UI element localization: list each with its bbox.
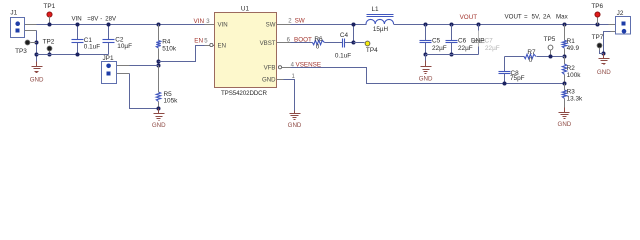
svg-text:C6: C6 — [458, 37, 467, 44]
svg-text:VIN: VIN — [194, 18, 205, 25]
svg-text:L1: L1 — [371, 6, 379, 13]
svg-text:0.1uF: 0.1uF — [84, 44, 100, 51]
svg-text:VOUT: VOUT — [460, 14, 478, 21]
svg-text:TPS54202DDCR: TPS54202DDCR — [221, 90, 268, 97]
svg-text:TP6: TP6 — [591, 3, 603, 10]
svg-text:100k: 100k — [567, 72, 582, 79]
svg-text:EN: EN — [194, 37, 203, 44]
svg-text:13.3k: 13.3k — [567, 96, 583, 103]
svg-text:R3: R3 — [567, 89, 576, 96]
svg-text:105k: 105k — [164, 98, 179, 105]
svg-text:C7: C7 — [485, 37, 494, 44]
svg-text:TP4: TP4 — [366, 47, 378, 54]
svg-text:VIN: VIN — [218, 21, 228, 28]
svg-text:TP1: TP1 — [43, 3, 55, 10]
svg-text:C5: C5 — [432, 37, 441, 44]
svg-text:TP7: TP7 — [592, 34, 604, 41]
svg-text:R4: R4 — [162, 38, 171, 45]
svg-text:0.1uF: 0.1uF — [335, 52, 351, 59]
svg-text:GND: GND — [419, 76, 433, 83]
svg-text:510k: 510k — [162, 45, 177, 52]
svg-text:SW: SW — [295, 18, 305, 25]
svg-text:J1: J1 — [10, 10, 17, 17]
svg-text:GND: GND — [558, 121, 572, 128]
svg-text:GND: GND — [262, 76, 276, 83]
svg-text:75pF: 75pF — [510, 75, 525, 82]
svg-text:TP3: TP3 — [15, 48, 27, 55]
svg-text:TP5: TP5 — [544, 36, 556, 43]
svg-text:22µF: 22µF — [458, 45, 473, 52]
svg-text:VBST: VBST — [260, 40, 276, 47]
svg-text:R1: R1 — [567, 38, 576, 45]
svg-text:VIN=8V-28V: VIN=8V-28V — [72, 15, 117, 22]
svg-text:15µH: 15µH — [373, 26, 389, 33]
svg-text:C4: C4 — [340, 32, 349, 39]
svg-text:GND: GND — [152, 122, 166, 129]
svg-text:R6: R6 — [314, 36, 323, 43]
svg-text:U1: U1 — [241, 6, 250, 13]
svg-text:R2: R2 — [567, 65, 576, 72]
svg-text:J2: J2 — [617, 10, 624, 17]
svg-text:GND: GND — [597, 69, 611, 76]
svg-text:GND: GND — [30, 76, 44, 83]
svg-text:49.9: 49.9 — [567, 45, 580, 52]
svg-text:VOUT=5V,2AMax: VOUT=5V,2AMax — [505, 14, 569, 21]
svg-text:SW: SW — [266, 21, 276, 28]
svg-text:0: 0 — [529, 57, 533, 64]
svg-text:GND: GND — [288, 122, 302, 129]
svg-text:22µF: 22µF — [485, 45, 500, 52]
svg-text:BOOT: BOOT — [294, 36, 312, 43]
svg-text:TP2: TP2 — [43, 38, 55, 45]
svg-text:0: 0 — [316, 43, 320, 50]
svg-text:EN: EN — [218, 42, 226, 49]
svg-text:VFB: VFB — [264, 65, 276, 72]
svg-text:DNP: DNP — [471, 37, 485, 44]
svg-text:10µF: 10µF — [117, 43, 132, 50]
svg-text:JP1: JP1 — [102, 55, 113, 62]
svg-text:R7: R7 — [527, 49, 536, 56]
svg-text:22µF: 22µF — [432, 45, 447, 52]
